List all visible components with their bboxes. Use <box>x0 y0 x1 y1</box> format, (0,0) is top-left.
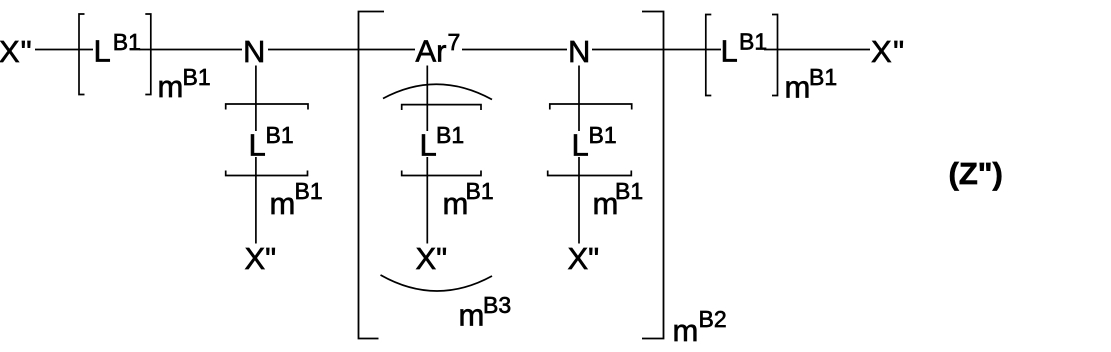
svg-text:B1: B1 <box>809 64 837 90</box>
arc under pendant 2 X'' <box>381 275 493 291</box>
svg-text:m: m <box>459 298 485 333</box>
pendant 1 wire N down <box>255 66 257 132</box>
svg-text:Ar: Ar <box>416 34 447 69</box>
pendant 2 wire L down <box>426 157 428 244</box>
bracket close ] of second L group <box>772 15 778 96</box>
wire Ar7-N2 <box>462 49 567 51</box>
svg-text:L: L <box>572 128 589 163</box>
big bracket close ] of repeat unit <box>642 12 664 339</box>
pendant 1 horizontal bracket close <box>226 171 308 176</box>
wire N2 to second L group <box>592 49 721 51</box>
svg-text:m: m <box>673 313 699 348</box>
svg-text:X": X" <box>0 34 33 69</box>
svg-text:B1: B1 <box>266 122 294 148</box>
svg-text:L: L <box>420 128 437 163</box>
svg-text:N: N <box>243 34 265 69</box>
svg-text:(Z"): (Z") <box>949 156 1003 191</box>
svg-text:B1: B1 <box>113 29 141 55</box>
big bracket open [ of repeat unit <box>359 12 385 339</box>
svg-text:B1: B1 <box>295 178 323 204</box>
svg-text:B1: B1 <box>466 178 494 204</box>
svg-text:B1: B1 <box>615 178 643 204</box>
pendant 3 horizontal bracket close <box>548 171 632 176</box>
svg-text:B3: B3 <box>483 292 511 318</box>
svg-text:B1: B1 <box>183 64 211 90</box>
svg-text:X": X" <box>871 34 906 69</box>
svg-text:7: 7 <box>448 29 461 55</box>
svg-text:B1: B1 <box>739 29 767 55</box>
pendant 1 wire L down <box>255 157 257 244</box>
wire N-Ar7 <box>268 49 415 51</box>
pendant 2 horizontal bracket close <box>402 171 481 176</box>
svg-text:X": X" <box>568 241 600 276</box>
pendant 3 horizontal bracket open <box>550 104 632 110</box>
svg-text:L: L <box>94 34 111 69</box>
bracket open [ of first L group <box>79 14 85 95</box>
arc over pendant 2 bracket <box>383 84 492 99</box>
bracket open [ of second L group <box>706 15 712 96</box>
svg-text:m: m <box>443 186 469 221</box>
svg-text:m: m <box>158 69 184 104</box>
svg-text:B1: B1 <box>436 122 464 148</box>
svg-text:L: L <box>721 34 738 69</box>
pendant 2 horizontal bracket open <box>402 105 481 110</box>
svg-text:N: N <box>568 34 590 69</box>
wire second L group to X'' <box>764 49 870 51</box>
svg-text:m: m <box>785 70 811 105</box>
wire X''-L <box>35 49 93 51</box>
pendant 3 wire N down <box>578 66 580 132</box>
pendant 2 wire Ar down <box>426 66 428 132</box>
svg-text:B2: B2 <box>699 306 727 332</box>
bracket close ] of first L group <box>145 14 151 95</box>
pendant 3 wire L down <box>578 157 580 244</box>
svg-text:L: L <box>249 128 266 163</box>
pendant 1 horizontal bracket open <box>226 104 308 110</box>
wire L-N <box>140 49 243 51</box>
svg-text:X": X" <box>416 241 448 276</box>
svg-text:X": X" <box>245 241 277 276</box>
svg-text:B1: B1 <box>589 122 617 148</box>
svg-text:m: m <box>270 186 296 221</box>
